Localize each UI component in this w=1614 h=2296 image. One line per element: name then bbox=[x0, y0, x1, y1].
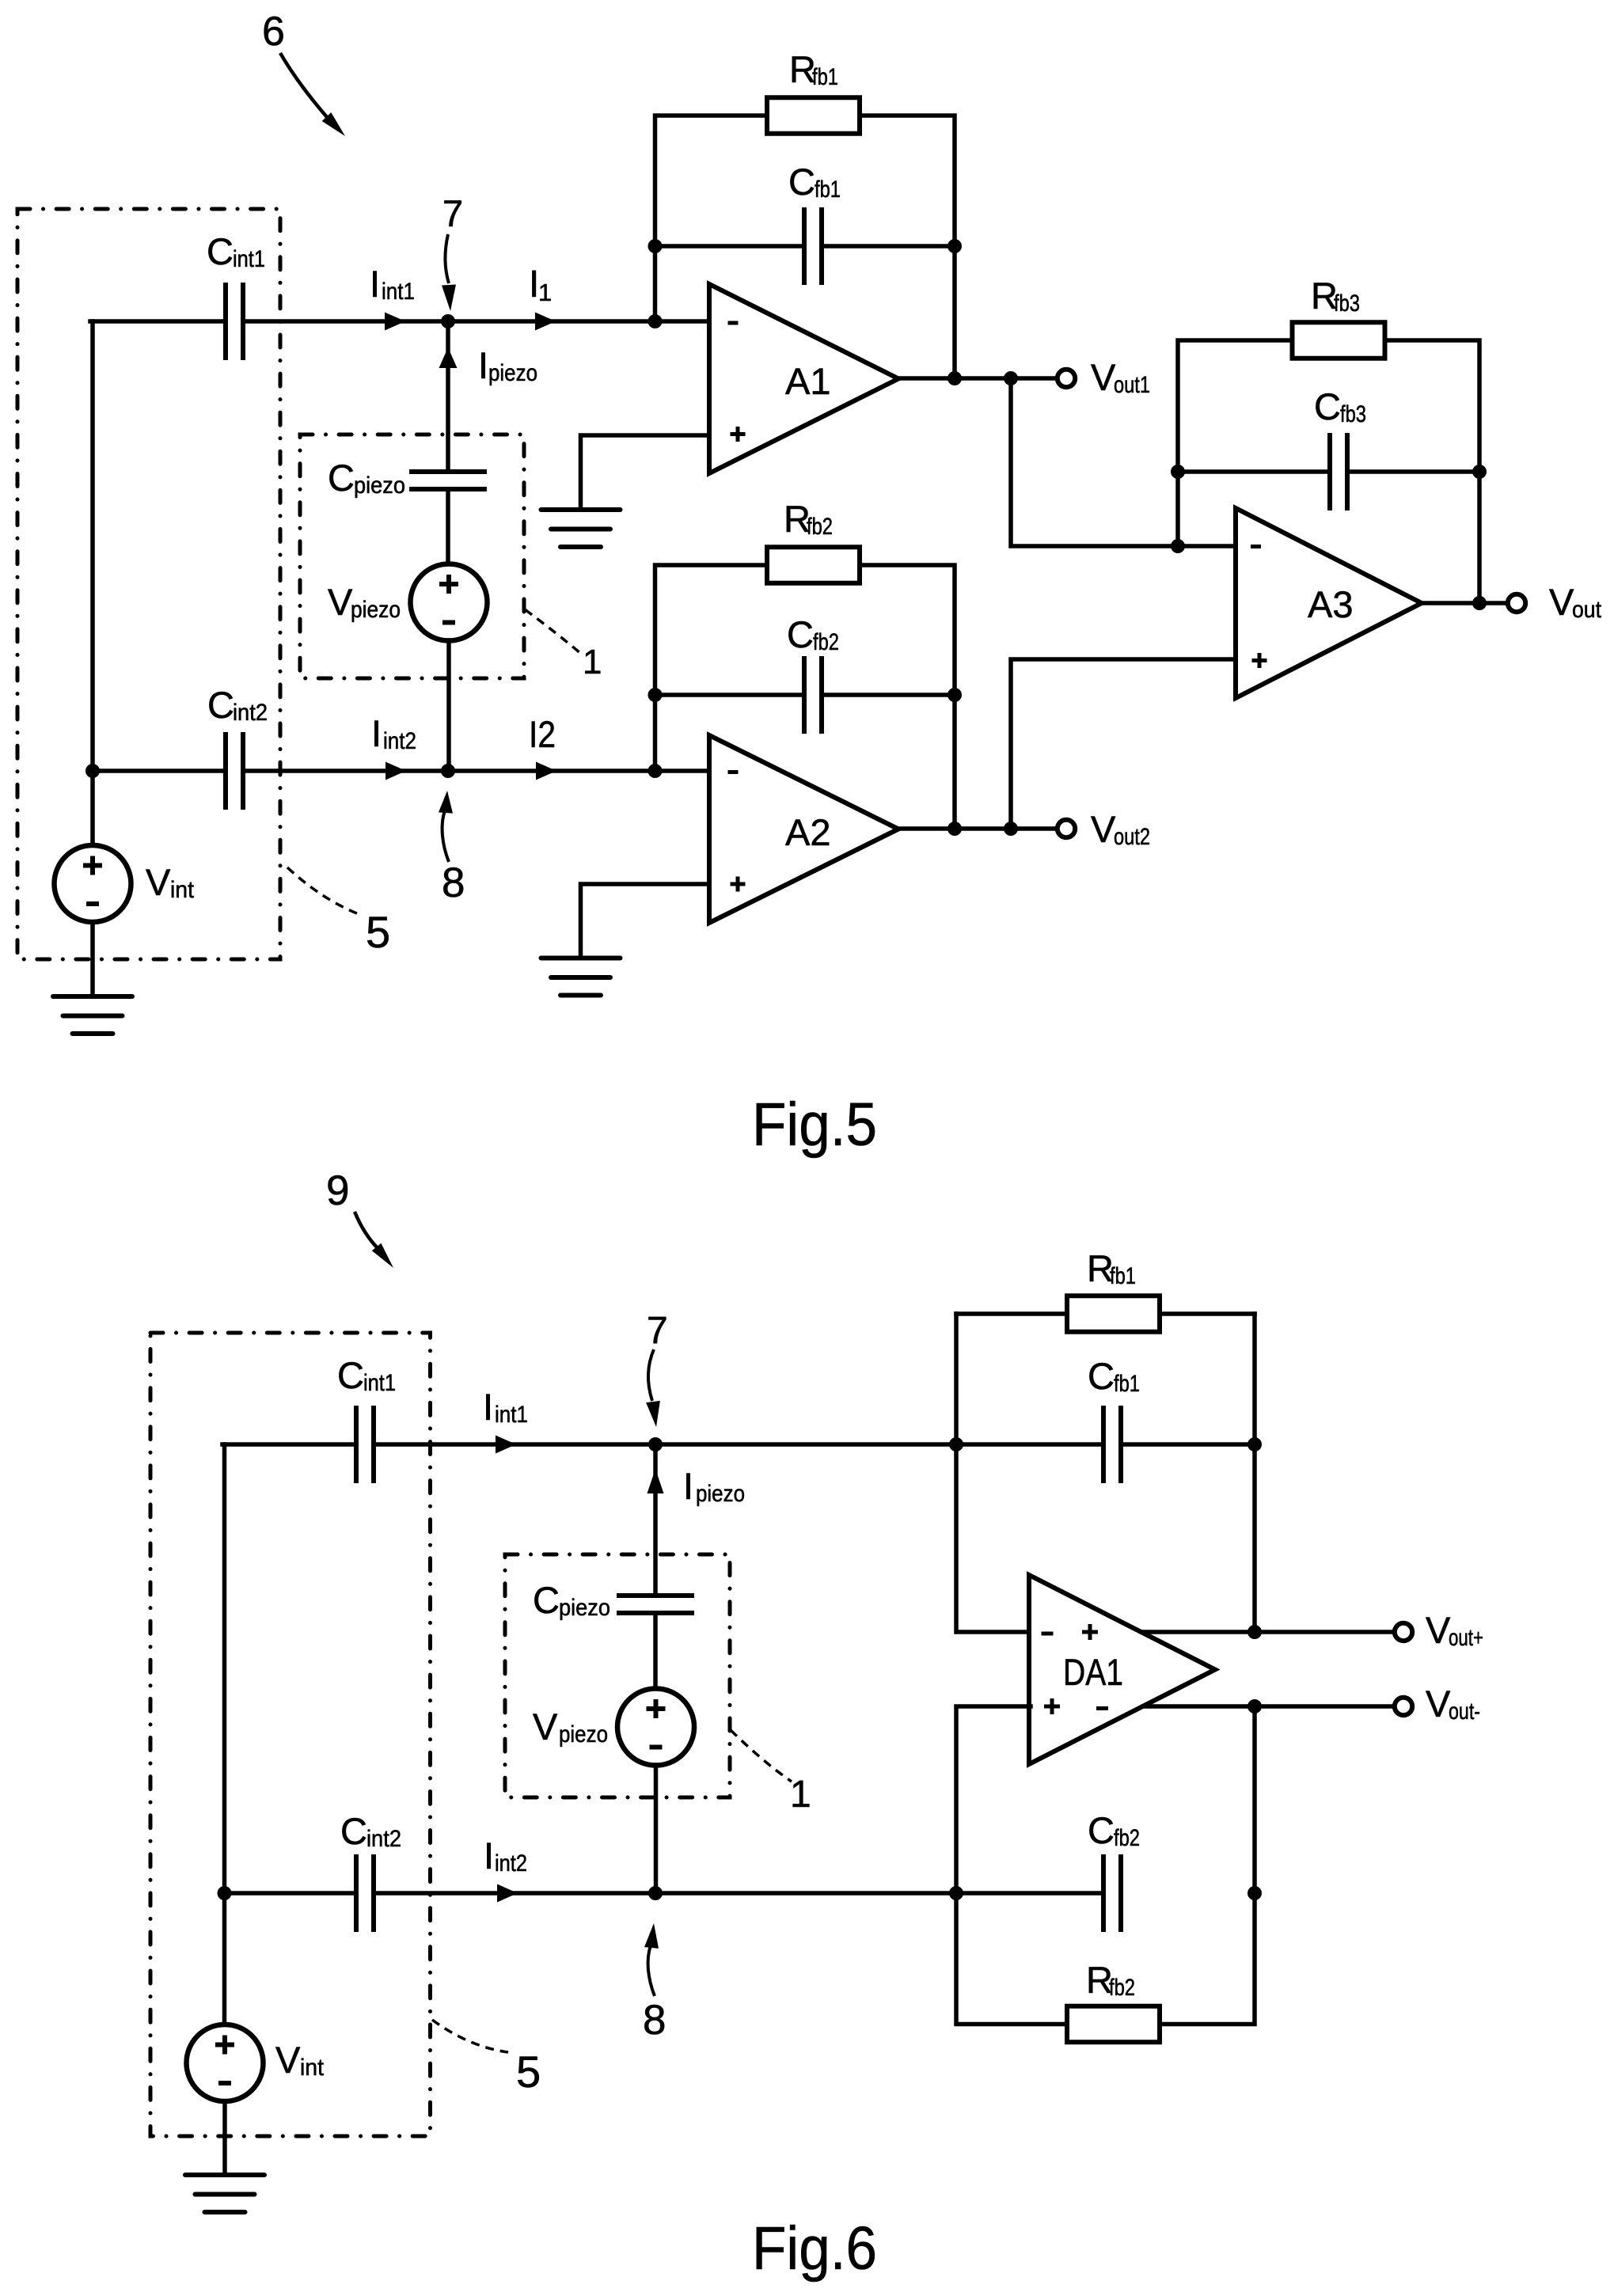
leader arrow 6 bbox=[280, 53, 327, 117]
svg-text:V: V bbox=[328, 581, 353, 623]
arrow Iint2 fig6 bbox=[497, 1884, 518, 1903]
node A2 output bbox=[948, 822, 962, 836]
svg-text:DA1: DA1 bbox=[1063, 1651, 1123, 1693]
wire DA1 plus input bbox=[956, 1706, 1031, 1893]
arrow Ipiezo bbox=[439, 347, 458, 368]
svg-text:int2: int2 bbox=[383, 728, 416, 754]
svg-text:1: 1 bbox=[583, 643, 602, 681]
svg-text:5: 5 bbox=[366, 907, 390, 957]
svg-text:C: C bbox=[207, 684, 234, 726]
wire Rfb1 right fig6 bbox=[1160, 1311, 1255, 1316]
arrow I1 bbox=[535, 313, 556, 331]
node fb left fig6 bbox=[949, 1437, 963, 1452]
wire Vout1 to A3 minus bbox=[1011, 378, 1236, 546]
svg-text:int2: int2 bbox=[233, 700, 268, 726]
op-amp A3 bbox=[1236, 508, 1422, 698]
wire Rfb1 left fig6 bbox=[956, 1311, 1067, 1316]
leader 5 fig6 bbox=[432, 2020, 508, 2052]
node Cfb1 right bbox=[948, 239, 962, 253]
ground Vint bbox=[53, 996, 132, 1034]
svg-text:I: I bbox=[683, 1465, 693, 1507]
svg-text:7: 7 bbox=[442, 192, 463, 234]
node A3 fb junction bbox=[1171, 539, 1185, 553]
svg-text:V: V bbox=[533, 1706, 558, 1748]
capacitor Cint1 fig6 bbox=[356, 1406, 374, 1483]
wire Cpiezo to Vpiezo bbox=[446, 489, 450, 564]
wire Cfb2 right lead bbox=[822, 693, 955, 697]
svg-text:int: int bbox=[300, 2055, 325, 2081]
svg-text:C: C bbox=[328, 457, 355, 499]
arrow Ipiezo fig6 bbox=[647, 1469, 664, 1493]
node Vout+ fig6 bbox=[1248, 1625, 1262, 1639]
svg-text:fb1: fb1 bbox=[1110, 1263, 1136, 1289]
node fb right fig6 bbox=[1248, 1437, 1262, 1452]
capacitor Cfb2 fig6 bbox=[1103, 1854, 1121, 1932]
svg-text:A3: A3 bbox=[1308, 583, 1354, 625]
op-amp DA1 bbox=[1029, 1575, 1215, 1764]
capacitor Cpiezo fig6 bbox=[617, 1596, 694, 1613]
svg-text:fb2: fb2 bbox=[813, 629, 839, 655]
wire node8 to A2 bbox=[448, 768, 709, 773]
node Cfb3 left bbox=[1171, 465, 1185, 479]
wire A2 output bbox=[898, 826, 1058, 831]
op-amp A1 bbox=[709, 284, 898, 473]
svg-text:1: 1 bbox=[538, 279, 552, 306]
wire Vint to ground fig6 bbox=[222, 2101, 227, 2175]
resistor Rfb1 bbox=[767, 97, 860, 134]
leader 1 fig6 bbox=[731, 1730, 792, 1782]
svg-text:Fig.6: Fig.6 bbox=[752, 2214, 877, 2283]
wire Cint2 left lead bbox=[93, 768, 226, 773]
ground A1 bbox=[541, 510, 621, 547]
svg-text:I: I bbox=[478, 344, 488, 386]
svg-text:C: C bbox=[787, 613, 814, 655]
arrow Iint1 bbox=[385, 313, 405, 331]
arrow Iint2 bbox=[385, 762, 406, 780]
svg-text:V: V bbox=[146, 861, 171, 903]
wire Cint1 to node7 bbox=[243, 319, 448, 324]
node Cfb2 right bbox=[948, 688, 962, 702]
svg-text:I: I bbox=[484, 1835, 494, 1877]
node A1 output bbox=[948, 371, 962, 385]
svg-text:piezo: piezo bbox=[696, 1481, 745, 1507]
svg-text:C: C bbox=[337, 1354, 364, 1396]
svg-text:V: V bbox=[1549, 581, 1574, 623]
capacitor Cint2 bbox=[226, 732, 243, 810]
wire Cint1 left lead fig6 bbox=[222, 1442, 356, 1447]
arrow Iint1 fig6 bbox=[496, 1436, 516, 1454]
svg-text:I: I bbox=[483, 1386, 493, 1428]
dash-dot box 1 fig6 bbox=[505, 1554, 730, 1797]
wire Ipiezo upper bbox=[446, 321, 450, 472]
svg-text:int2: int2 bbox=[366, 1826, 401, 1852]
node 7 bbox=[441, 314, 455, 328]
svg-text:V: V bbox=[1091, 808, 1116, 850]
op-amp A2 bbox=[709, 735, 898, 923]
node 7 fig6 bbox=[648, 1437, 663, 1452]
capacitor Cfb1 fig6 bbox=[1103, 1406, 1121, 1483]
terminal Vout+ fig6 bbox=[1395, 1623, 1412, 1641]
wire right vert lower fig6 bbox=[1252, 1706, 1257, 1893]
svg-text:fb1: fb1 bbox=[812, 64, 838, 90]
resistor Rfb2 fig6 bbox=[1067, 2006, 1160, 2043]
wire A2 fb left vertical bbox=[655, 565, 767, 771]
node Cfb1 left bbox=[648, 239, 663, 253]
node fb2 right fig6 bbox=[1248, 1886, 1262, 1900]
capacitor Cint1 bbox=[226, 283, 243, 360]
wire A1 plus input bbox=[581, 435, 710, 510]
dash-dot box 5 fig6 bbox=[150, 1333, 431, 2136]
terminal Vout1 bbox=[1058, 370, 1075, 387]
svg-text:8: 8 bbox=[442, 860, 465, 906]
wire Cint2 to node8 bbox=[243, 768, 448, 773]
svg-text:piezo: piezo bbox=[559, 1595, 610, 1621]
capacitor Cpiezo bbox=[409, 472, 487, 489]
svg-text:C: C bbox=[1088, 1809, 1115, 1851]
wire left vertical bbox=[90, 321, 95, 845]
capacitor Cfb2 bbox=[804, 656, 822, 734]
svg-text:int2: int2 bbox=[495, 1850, 527, 1877]
svg-text:I2: I2 bbox=[529, 713, 556, 755]
svg-text:out-: out- bbox=[1449, 1698, 1480, 1725]
wire Cint1 left lead bbox=[90, 319, 226, 324]
node 8 fig6 bbox=[648, 1886, 663, 1900]
wire Cint2 left lead fig6 bbox=[225, 1891, 357, 1896]
capacitor Cint2 fig6 bbox=[356, 1854, 374, 1932]
svg-text:A1: A1 bbox=[785, 360, 831, 402]
svg-text:V: V bbox=[1426, 1609, 1451, 1651]
svg-text:out: out bbox=[1572, 597, 1602, 623]
svg-text:fb3: fb3 bbox=[1334, 290, 1360, 317]
wire Cint1 to node7 fig6 bbox=[374, 1442, 1103, 1447]
svg-text:V: V bbox=[275, 2039, 301, 2081]
terminal Vout- fig6 bbox=[1395, 1698, 1412, 1715]
svg-text:out2: out2 bbox=[1114, 824, 1150, 850]
wire Vint to ground bbox=[90, 922, 95, 996]
ground Vint fig6 bbox=[185, 2175, 264, 2212]
wire Rfb2 right bbox=[860, 565, 955, 829]
svg-text:I: I bbox=[370, 263, 380, 305]
wire A3 fb left vertical bbox=[1178, 340, 1291, 546]
leader arrow 9 bbox=[355, 1212, 378, 1249]
svg-text:int1: int1 bbox=[363, 1370, 396, 1396]
source Vpiezo fig6 bbox=[617, 1689, 694, 1766]
node A1 inv input bbox=[648, 314, 663, 328]
wire Cint2 to node8 fig6 bbox=[374, 1891, 1103, 1896]
svg-text:int1: int1 bbox=[382, 279, 415, 305]
source Vint bbox=[90, 844, 95, 847]
svg-text:int1: int1 bbox=[495, 1402, 528, 1428]
svg-text:I: I bbox=[371, 712, 382, 754]
node Cint2 left fig6 bbox=[218, 1886, 232, 1900]
source Vpiezo bbox=[411, 564, 488, 641]
svg-text:C: C bbox=[533, 1579, 560, 1621]
node Vint junction bbox=[85, 764, 100, 778]
svg-text:C: C bbox=[340, 1810, 367, 1852]
leader 5 bbox=[287, 867, 359, 914]
svg-text:V: V bbox=[1426, 1683, 1451, 1725]
wire node7 to A1 bbox=[448, 319, 709, 324]
svg-text:C: C bbox=[1088, 1355, 1115, 1397]
leader 1 bbox=[525, 609, 581, 654]
svg-text:fb2: fb2 bbox=[1109, 1975, 1135, 2001]
node Cfb2 left bbox=[648, 688, 663, 702]
wire Cfb3 right lead bbox=[1347, 469, 1479, 474]
wire left vert to DA1 minus bbox=[956, 1314, 1031, 1632]
svg-text:9: 9 bbox=[326, 1167, 349, 1214]
wire Cfb2 left lead bbox=[655, 693, 805, 697]
wire Cfb1 right fig6 bbox=[1121, 1442, 1255, 1447]
node A3 output bbox=[1472, 596, 1487, 610]
svg-text:piezo: piezo bbox=[354, 472, 405, 499]
resistor Rfb2 bbox=[767, 547, 860, 583]
capacitor Cfb1 bbox=[804, 207, 822, 285]
wire Vpiezo to node8 fig6 bbox=[654, 1765, 659, 1893]
svg-text:6: 6 bbox=[262, 9, 285, 55]
capacitor Cfb3 bbox=[1330, 433, 1347, 510]
wire Rfb3 right bbox=[1386, 340, 1479, 603]
svg-text:piezo: piezo bbox=[488, 360, 537, 386]
wire A3 output bbox=[1422, 601, 1508, 605]
wire Rfb2 right fig6 bbox=[1160, 1893, 1255, 2025]
wire Cfb1 right lead bbox=[822, 244, 955, 249]
terminal Vout2 bbox=[1058, 820, 1075, 837]
node Vout2 branch bbox=[1004, 822, 1018, 836]
wire A2 plus input bbox=[581, 884, 710, 958]
node fb2 left fig6 bbox=[949, 1886, 963, 1900]
svg-text:piezo: piezo bbox=[351, 597, 401, 623]
svg-text:fb3: fb3 bbox=[1340, 401, 1366, 427]
node Vout- fig6 bbox=[1248, 1699, 1262, 1713]
wire right vert fig6 bbox=[1252, 1314, 1257, 1632]
node 8 bbox=[441, 764, 455, 778]
svg-text:Fig.5: Fig.5 bbox=[752, 1091, 877, 1159]
wire Vout- fig6 bbox=[1144, 1704, 1395, 1709]
svg-text:1: 1 bbox=[790, 1774, 811, 1816]
wire Cfb1 left lead bbox=[655, 244, 805, 249]
wire A1 fb left vertical bbox=[655, 116, 766, 321]
resistor Rfb1 fig6 bbox=[1067, 1296, 1160, 1332]
node Cfb3 right bbox=[1472, 465, 1487, 479]
svg-text:fb2: fb2 bbox=[807, 514, 833, 540]
terminal Vout bbox=[1508, 594, 1525, 612]
resistor Rfb3 bbox=[1293, 322, 1385, 359]
wire Ipiezo fig6 bbox=[653, 1444, 658, 1596]
dash-dot box 1 bbox=[300, 435, 524, 678]
svg-text:out+: out+ bbox=[1449, 1625, 1483, 1651]
svg-text:piezo: piezo bbox=[559, 1721, 608, 1748]
svg-text:5: 5 bbox=[516, 2047, 541, 2097]
arrow I2 bbox=[536, 762, 556, 780]
svg-text:C: C bbox=[1314, 385, 1341, 427]
wire Vout2 to A3 plus bbox=[1011, 659, 1236, 829]
svg-text:int1: int1 bbox=[233, 246, 265, 272]
svg-text:7: 7 bbox=[647, 1310, 668, 1352]
node A2 inv input bbox=[648, 764, 663, 778]
svg-text:C: C bbox=[207, 230, 234, 272]
svg-text:8: 8 bbox=[643, 1997, 666, 2044]
wire left vertical fig6 bbox=[222, 1444, 227, 1893]
wire Rfb2 left fig6 bbox=[956, 1893, 1067, 2025]
svg-text:V: V bbox=[1091, 356, 1116, 398]
wire Vpiezo to node8 bbox=[446, 640, 451, 771]
node Vout1 branch bbox=[1004, 371, 1018, 385]
wire A1 output bbox=[898, 376, 1058, 381]
wire Cfb3 left lead bbox=[1178, 469, 1330, 474]
wire Vout+ fig6 bbox=[1142, 1630, 1395, 1634]
dash-dot box 5 bbox=[17, 209, 280, 959]
svg-text:int: int bbox=[170, 877, 195, 903]
svg-text:fb1: fb1 bbox=[1114, 1371, 1140, 1397]
svg-text:C: C bbox=[788, 161, 815, 203]
svg-text:A2: A2 bbox=[785, 811, 831, 853]
ground A2 bbox=[541, 958, 621, 996]
wire Rfb1 right bbox=[860, 116, 955, 378]
svg-text:fb2: fb2 bbox=[1114, 1825, 1140, 1851]
wire Cpiezo to Vpiezo fig6 bbox=[653, 1613, 658, 1689]
source Vint fig6 bbox=[222, 1892, 227, 2025]
svg-text:fb1: fb1 bbox=[815, 176, 841, 203]
svg-text:out1: out1 bbox=[1114, 372, 1150, 398]
